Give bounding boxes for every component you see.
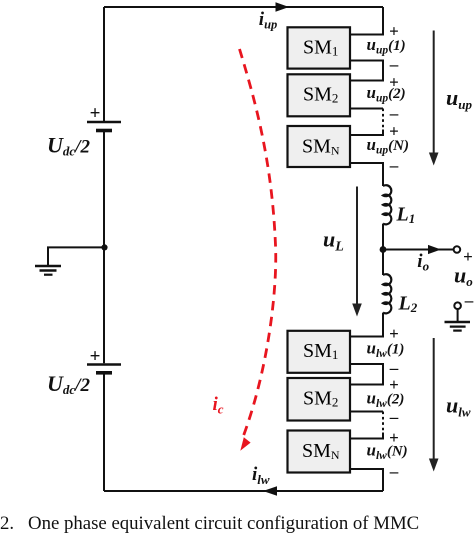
wire SMNup lower lead to L1 <box>350 163 383 186</box>
svg-text:+: + <box>463 247 473 266</box>
submodule SM1 (upper) <box>288 27 351 68</box>
node N0 (dc midpoint) <box>101 244 107 250</box>
wire node A to L2 <box>382 250 384 276</box>
arrow u_L (middle) <box>352 187 362 317</box>
svg-text:+: + <box>389 428 399 447</box>
svg-text:+: + <box>389 73 399 92</box>
svg-text:Udc/2: Udc/2 <box>47 371 90 397</box>
wire bottom bus <box>104 490 383 492</box>
svg-text:ulw(N): ulw(N) <box>367 441 408 463</box>
arrow io <box>428 245 441 254</box>
wire SM2lw lower lead <box>350 411 383 413</box>
svg-text:uup(2): uup(2) <box>367 83 406 105</box>
svg-text:uup: uup <box>446 85 472 112</box>
svg-text:–: – <box>389 408 399 427</box>
wire output to terminal <box>383 249 454 251</box>
svg-text:+: + <box>389 22 399 41</box>
svg-text:iup: iup <box>259 9 277 32</box>
svg-text:One phase equivalent circuit c: One phase equivalent circuit configurati… <box>28 513 419 534</box>
svg-text:–: – <box>389 55 399 74</box>
svg-text:uo: uo <box>454 262 473 289</box>
svg-text:+: + <box>90 103 101 124</box>
svg-text:2.: 2. <box>0 513 14 534</box>
submodule SM1 (lower) <box>288 331 351 373</box>
submodule SM2 (upper) <box>288 74 351 116</box>
svg-text:uup(N): uup(N) <box>367 135 409 157</box>
arrow ic (red) <box>240 437 250 451</box>
svg-text:+: + <box>389 375 399 394</box>
svg-text:Udc/2: Udc/2 <box>47 133 90 159</box>
arrow ilw on bottom bus <box>263 486 277 495</box>
svg-text:+: + <box>389 324 399 343</box>
arrow u_up (right) <box>429 31 439 166</box>
submodule SM2 (lower) <box>288 378 351 421</box>
svg-text:uup(1): uup(1) <box>367 35 406 57</box>
svg-text:L2: L2 <box>398 293 418 316</box>
wire ground branch <box>48 247 105 265</box>
svg-text:ic: ic <box>213 394 224 417</box>
submodule SMN (upper) <box>288 126 351 167</box>
wire dotted link lower arm <box>382 412 384 433</box>
node A (arm midpoint) <box>380 246 387 253</box>
terminal - (open circle) <box>454 302 461 309</box>
wire SM2up lower lead <box>350 108 383 110</box>
svg-text:+: + <box>389 122 399 141</box>
wire SMNlw lower lead to bottom bus <box>350 469 383 491</box>
svg-text:uL: uL <box>323 227 344 255</box>
arrow iup on top bus <box>276 2 290 11</box>
svg-text:io: io <box>417 251 429 273</box>
submodule SMN (lower) <box>288 431 351 473</box>
arrow u_lw (right) <box>429 338 439 472</box>
wire SM1up lower lead <box>350 61 383 81</box>
source V1 Udc/2 (upper) <box>87 122 121 131</box>
wire SMNup upper lead <box>350 130 383 136</box>
wire L2 to lower arm <box>350 313 383 337</box>
wire terminal to right ground <box>457 309 459 321</box>
dashed red circulating-current path <box>240 49 276 437</box>
svg-text:–: – <box>389 104 399 123</box>
wire left rail lower <box>103 374 105 491</box>
wire SM1lw lower lead <box>350 364 383 385</box>
svg-text:–: – <box>389 156 399 175</box>
svg-text:L1: L1 <box>396 204 416 227</box>
wire left rail upper <box>103 7 105 121</box>
svg-text:+: + <box>90 346 101 367</box>
svg-text:–: – <box>464 291 474 310</box>
ground (left) <box>35 266 61 275</box>
terminal + (open circle) <box>454 246 461 253</box>
wire SMNlw upper lead <box>350 433 383 439</box>
inductor L2 <box>383 274 391 313</box>
inductor L1 <box>383 185 391 224</box>
svg-text:–: – <box>389 462 399 481</box>
wire top bus <box>104 6 383 8</box>
svg-text:ulw: ulw <box>446 393 471 420</box>
caption: Fig. 2 One phase equivalent circuit configuration of MMC <box>0 513 419 534</box>
wire upper-arm drop from top bus <box>350 7 383 35</box>
source V2 Udc/2 (lower) <box>87 365 121 373</box>
svg-text:ilw: ilw <box>252 464 270 487</box>
wire L1 to node A <box>382 224 384 250</box>
wire left rail middle <box>103 132 105 364</box>
ground (right) <box>445 322 471 331</box>
wire dotted link upper arm <box>382 109 384 130</box>
